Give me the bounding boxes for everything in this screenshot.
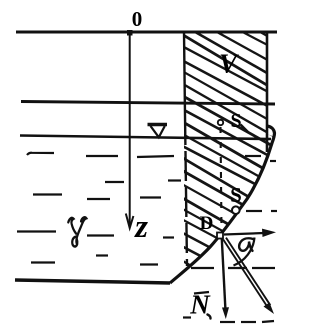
water dashes row 6 — [31, 261, 55, 263]
water dashes row 4 — [17, 230, 56, 232]
svg-text:S: S — [230, 110, 241, 132]
small tail stroke of S-bar label — [241, 125, 249, 133]
svg-text:S: S — [230, 183, 242, 207]
water dashes row 2 — [105, 181, 124, 183]
vessel bottom line — [15, 280, 170, 283]
svg-text:z: z — [134, 209, 148, 245]
vertical reaction arrow — [222, 239, 226, 309]
water dashes row 5 — [96, 254, 108, 256]
diagonal resultant arrow (double stroke) — [223, 240, 267, 308]
nabla free-surface marker — [148, 125, 168, 138]
horizontal force arrow at D — [224, 233, 264, 235]
svg-text:D: D — [200, 213, 214, 234]
bottom dashed row — [220, 321, 235, 323]
water dashes row 1 — [17, 153, 181, 265]
angle arc alpha — [234, 238, 255, 266]
right edge of column — [266, 31, 269, 152]
z axis line — [129, 33, 131, 227]
N-bar label — [194, 292, 209, 294]
upper S-bar point circle — [218, 120, 223, 125]
left edge of column (solid top part) — [184, 32, 185, 115]
dash-dot projection line from S-bar down to D — [221, 127, 222, 231]
S point circle on curve — [232, 206, 240, 214]
hatched volume region V — [180, 0, 282, 319]
origin dot — [127, 30, 133, 36]
top water line L1 — [16, 31, 277, 34]
svg-text:0: 0 — [132, 7, 143, 31]
water dashes row 3 — [33, 193, 62, 195]
left edge of column (dashed lower part) — [185, 115, 187, 266]
third horizontal line L3 (free surface) — [20, 136, 271, 140]
alpha label — [239, 238, 253, 250]
gamma label (script with loop) — [68, 217, 86, 246]
z axis arrowhead — [126, 214, 134, 229]
small dash left of N — [183, 316, 191, 318]
second horizontal line L2 — [21, 102, 275, 105]
curved wall — [170, 126, 275, 283]
dashes right of curve — [191, 156, 277, 322]
svg-text:V: V — [219, 49, 239, 79]
D point marker — [217, 233, 223, 239]
